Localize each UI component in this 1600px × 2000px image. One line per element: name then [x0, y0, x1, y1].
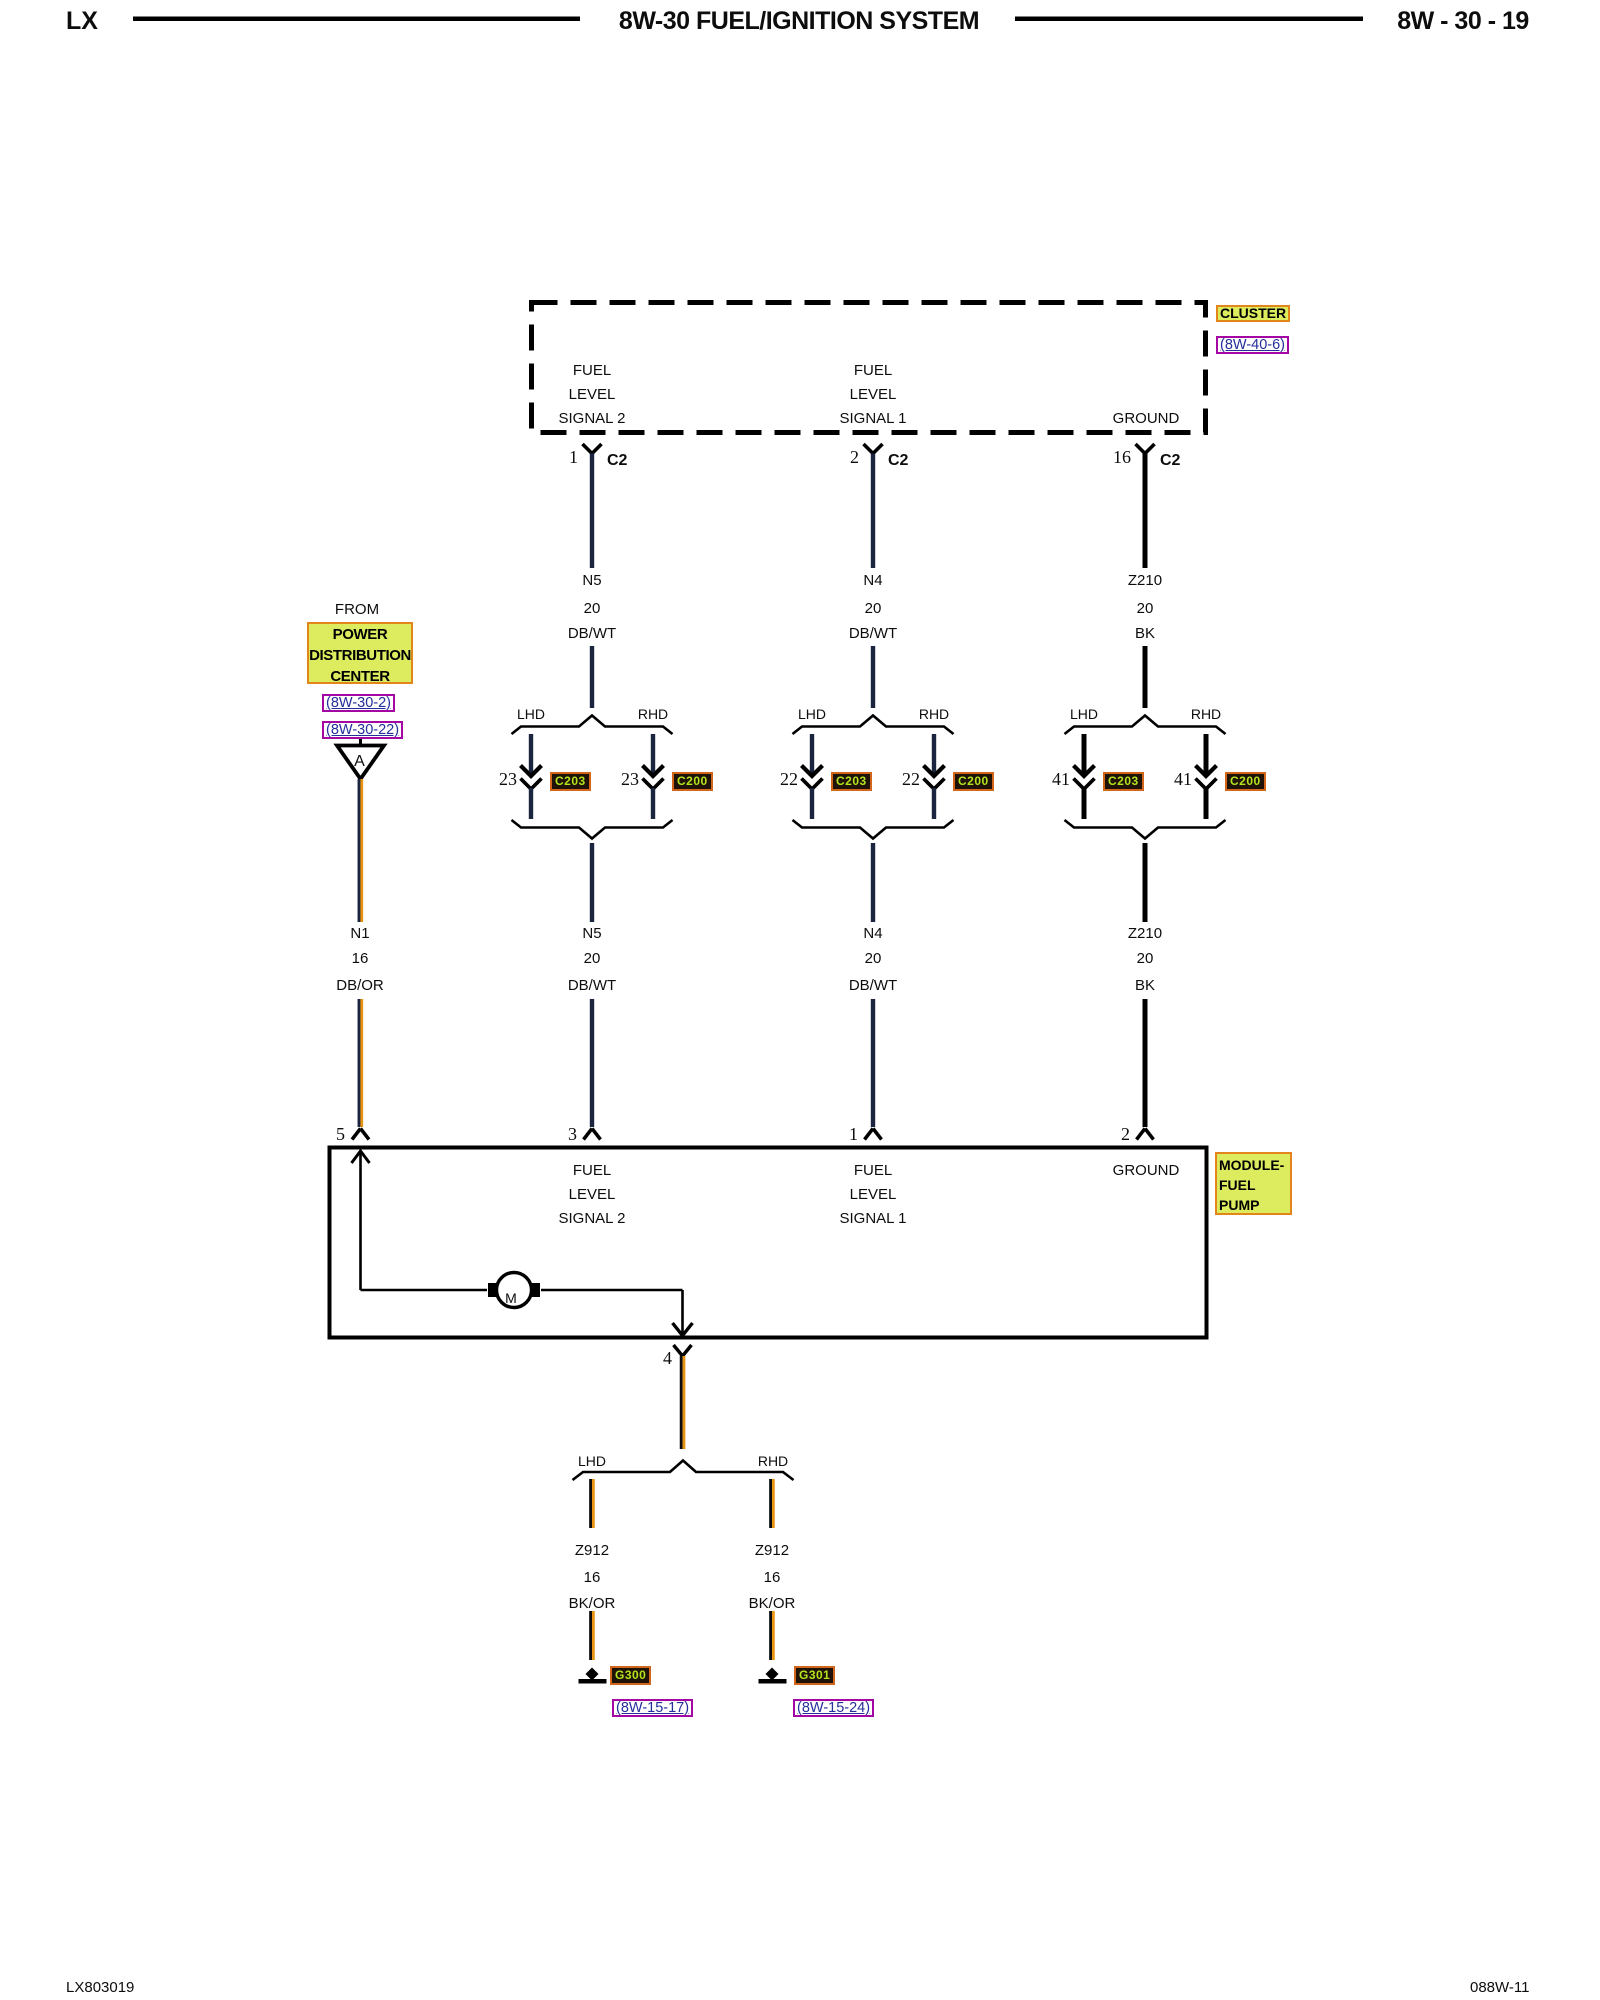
wire Z210 RHD branch with connector C200 — [1204, 734, 1209, 774]
wire label N1 16 DB/OR — [350, 926, 369, 941]
footer sheet number — [1470, 1980, 1529, 1995]
link 8W-40-6 — [1216, 336, 1289, 354]
label LHD column N4 — [798, 707, 826, 722]
cluster pin label fuel level signal 2 — [573, 363, 611, 378]
pin number 41 — [1052, 770, 1070, 788]
link 8W-30-22 — [322, 721, 403, 739]
link 8W-15-17 — [612, 1699, 693, 1717]
wire label N4 20 DB/WT lower — [863, 926, 882, 941]
internal wire from motor to pin 4 with down arrow — [541, 1290, 683, 1334]
pin number 22 — [780, 770, 798, 788]
wire label N5 20 DB/WT upper — [582, 573, 601, 588]
wire N5 lower — [590, 843, 594, 1127]
module pin label fuel level signal 2 — [573, 1163, 611, 1178]
module pin 1 connector — [865, 1129, 882, 1140]
wire N4 upper — [871, 454, 875, 709]
pin number 4 — [663, 1349, 672, 1367]
label LHD column Z210 — [1070, 707, 1098, 722]
wire N4 RHD branch with connector C200 — [932, 734, 936, 774]
connector label C2 — [888, 453, 908, 469]
pin number 5 — [336, 1125, 345, 1143]
label FROM — [335, 602, 379, 617]
ground G301 symbol — [766, 1668, 779, 1681]
link 8W-15-24 — [793, 1699, 874, 1717]
wire Z210 LHD branch with connector C203 — [1082, 734, 1087, 774]
label M in motor — [505, 1291, 517, 1305]
connector label C2 — [1160, 453, 1180, 469]
pin number 22 — [902, 770, 920, 788]
header rule right — [1015, 17, 1363, 22]
header title — [619, 9, 979, 34]
connector label C203 — [831, 772, 872, 791]
connector C2 pin 16 symbol — [1136, 444, 1155, 454]
connector C2 pin 2 symbol — [864, 444, 883, 454]
label LHD bottom — [578, 1454, 606, 1469]
label A in triangle — [354, 754, 365, 770]
pin number 23 — [499, 770, 517, 788]
wire Z210 lower — [1143, 843, 1148, 1127]
ground label G301 — [794, 1666, 835, 1685]
footer drawing number — [66, 1980, 134, 1995]
label CLUSTER — [1216, 305, 1290, 322]
bottom split brace LHD RHD — [573, 1461, 794, 1481]
header rule left — [133, 17, 580, 22]
internal wire from pin 5 with up arrow — [352, 1151, 370, 1163]
wire label Z912 16 BK/OR LHD — [575, 1543, 609, 1558]
module pin 5 connector — [352, 1129, 369, 1140]
connector label C200 — [953, 772, 994, 791]
module fuel pump box — [330, 1148, 1207, 1338]
cluster dashed box — [532, 303, 1206, 433]
module pin 4 connector — [674, 1345, 692, 1356]
wire N5 upper — [590, 454, 594, 709]
pin number 1 — [849, 1125, 858, 1143]
wire label Z210 20 BK upper — [1128, 573, 1162, 588]
module pin label ground — [1113, 1163, 1180, 1178]
connector label C203 — [1103, 772, 1144, 791]
cluster pin label ground — [1113, 411, 1180, 426]
connector label C2 — [607, 453, 627, 469]
pin number 41 — [1174, 770, 1192, 788]
label LHD column N5 — [517, 707, 545, 722]
header label LX — [66, 9, 98, 34]
connector label C203 — [550, 772, 591, 791]
wire label Z210 20 BK lower — [1128, 926, 1162, 941]
label RHD bottom — [758, 1454, 788, 1469]
wire N4 LHD branch with connector C203 — [810, 734, 814, 774]
pin number 16 — [1113, 448, 1131, 466]
ground G300 symbol — [586, 1668, 599, 1681]
wire Z912 LHD — [589, 1479, 592, 1660]
wire N5 LHD branch with connector C203 — [529, 734, 533, 774]
module pin 2 connector — [1137, 1129, 1154, 1140]
wire label N4 20 DB/WT upper — [863, 573, 882, 588]
wire from pin 4 BK/OR — [680, 1356, 683, 1449]
wire N4 lower — [871, 843, 875, 1127]
connector label C200 — [672, 772, 713, 791]
split brace column N5 — [512, 716, 673, 735]
wire N5 RHD branch with connector C200 — [651, 734, 655, 774]
connector label C200 — [1225, 772, 1266, 791]
label POWER DISTRIBUTION CENTER — [307, 622, 413, 684]
split brace column N4 — [793, 716, 954, 735]
fuel pump motor M — [497, 1273, 532, 1308]
label RHD column N4 — [919, 707, 949, 722]
module pin label fuel level signal 1 — [854, 1163, 892, 1178]
triangle A from power distribution center — [359, 739, 362, 745]
split brace column Z210 — [1065, 716, 1226, 735]
label MODULE-FUEL PUMP — [1215, 1152, 1292, 1215]
connector C2 pin 1 symbol — [583, 444, 602, 454]
pin number 23 — [621, 770, 639, 788]
pin number 3 — [568, 1125, 577, 1143]
module pin 3 connector — [584, 1129, 601, 1140]
pin number 2 — [1121, 1125, 1130, 1143]
cluster pin label fuel level signal 1 — [854, 363, 892, 378]
label RHD column Z210 — [1191, 707, 1221, 722]
link 8W-30-2 — [322, 694, 395, 712]
wire label N5 20 DB/WT lower — [582, 926, 601, 941]
wire Z210 upper — [1143, 454, 1148, 709]
merge brace column N4 — [793, 820, 954, 839]
ground label G300 — [610, 1666, 651, 1685]
merge brace column N5 — [512, 820, 673, 839]
merge brace column Z210 — [1065, 820, 1226, 839]
pin number 1 — [569, 448, 578, 466]
wire N1 DB/OR — [358, 779, 361, 1127]
header page number — [1397, 9, 1529, 34]
wire Z912 RHD — [769, 1479, 772, 1660]
label RHD column N5 — [638, 707, 668, 722]
pin number 2 — [850, 448, 859, 466]
wire label Z912 16 BK/OR RHD — [755, 1543, 789, 1558]
